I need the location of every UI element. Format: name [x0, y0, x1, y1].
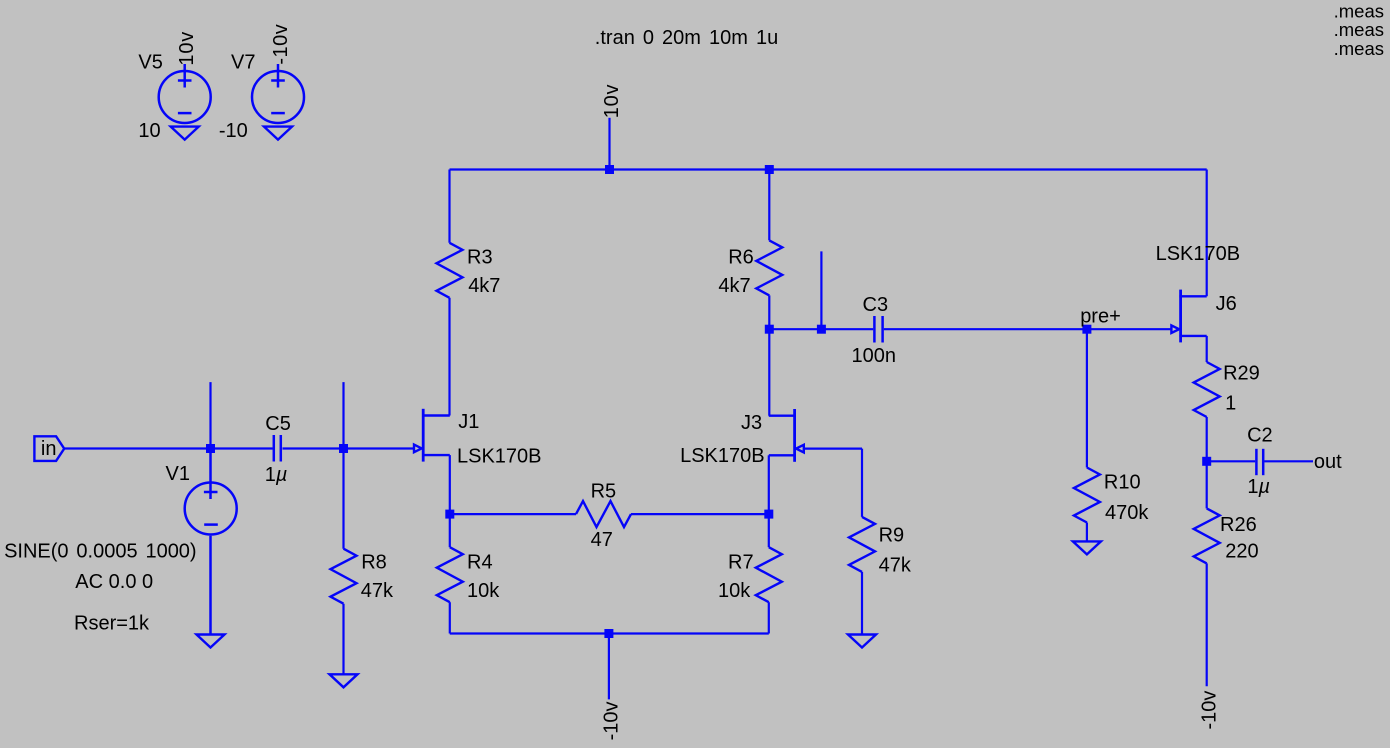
resistor R7 body [756, 547, 782, 602]
svg-text:10k: 10k [718, 580, 751, 602]
node junction stub / C3 wire [817, 325, 826, 334]
wire R7 bottom lead [768, 602, 770, 633]
ground under R8 [330, 674, 358, 687]
svg-text:R9: R9 [879, 524, 905, 546]
svg-text:C3: C3 [863, 294, 889, 316]
capacitor C2 plates [1256, 449, 1263, 475]
svg-text:-10v: -10v [270, 24, 292, 65]
node junction on +10v rail at R6 branch [765, 165, 774, 174]
svg-text:-10: -10 [219, 120, 248, 142]
node junction R8 top [339, 444, 348, 453]
svg-text:.tran 0 20m 10m 1u: .tran 0 20m 10m 1u [595, 27, 778, 49]
svg-text:LSK170B: LSK170B [680, 445, 765, 467]
resistor R3 body [437, 243, 463, 298]
svg-text:R5: R5 [591, 481, 617, 503]
ground under V5 [171, 127, 199, 140]
svg-text:47k: 47k [361, 580, 394, 602]
wire J6 drain to +10v rail [1206, 170, 1208, 297]
ground under V7 [264, 127, 292, 140]
svg-text:V5: V5 [138, 52, 162, 74]
svg-text:pre+: pre+ [1080, 306, 1121, 328]
svg-text:-10v: -10v [601, 701, 623, 740]
svg-text:1µ: 1µ [265, 464, 288, 486]
node junction R6 / C3 / J3 drain [765, 325, 774, 334]
wire R5 right lead [631, 513, 769, 515]
svg-text:R6: R6 [728, 247, 754, 269]
svg-text:R26: R26 [1220, 514, 1257, 536]
svg-text:R10: R10 [1104, 472, 1141, 494]
wire top +10v rail [450, 168, 1207, 170]
wire R9 top lead [861, 449, 863, 517]
svg-text:.meas: .meas [1334, 38, 1384, 59]
wire R4 bottom lead [449, 602, 451, 633]
svg-text:4k7: 4k7 [468, 275, 500, 297]
wire input net from in port to J1 gate [64, 447, 272, 449]
node junction pre+ / R10 [1082, 325, 1091, 334]
svg-text:4k7: 4k7 [718, 275, 750, 297]
capacitor C3 plates [874, 316, 882, 343]
svg-text:R3: R3 [467, 246, 493, 268]
voltage source V5 [159, 64, 211, 123]
wire C2 right to out [1264, 460, 1313, 462]
wire J3 gate to R9 [804, 448, 862, 450]
wire C3 left lead [769, 328, 873, 330]
resistor R4 body [437, 547, 463, 602]
wire bottom -10v rail [450, 632, 769, 634]
svg-text:V7: V7 [231, 52, 255, 74]
wire C5 right to J1 gate arrow [283, 447, 415, 449]
node junction J1 source / R4 / R5 [445, 510, 454, 519]
svg-text:-10v: -10v [1198, 691, 1220, 730]
wire R8 top lead [342, 449, 344, 549]
ground under R9 [848, 635, 876, 648]
wire R10 bottom lead [1086, 523, 1088, 542]
svg-text:in: in [41, 438, 57, 460]
svg-text:C2: C2 [1247, 425, 1273, 447]
wire antenna stub above R8 [342, 382, 344, 448]
node junction V1 top [206, 444, 215, 453]
transistor Q J1 LSK170B symbol [414, 409, 450, 462]
svg-text:R4: R4 [467, 551, 493, 573]
svg-text:10v: 10v [176, 31, 198, 66]
resistor R10 body [1074, 468, 1100, 523]
resistor R9 body [849, 517, 875, 572]
wire R3 top lead [448, 170, 450, 243]
voltage source V1 circle [185, 449, 237, 635]
svg-text:LSK170B: LSK170B [1156, 243, 1241, 265]
wire R6 top lead [768, 170, 770, 241]
ground under V1 [197, 635, 225, 648]
wire R5 left lead [450, 513, 576, 515]
svg-text:10: 10 [138, 120, 160, 142]
svg-text:1: 1 [1225, 393, 1236, 415]
svg-text:470k: 470k [1105, 502, 1149, 524]
svg-text:J1: J1 [458, 411, 479, 433]
wire R7 top lead [768, 514, 770, 547]
wire R26 bottom lead to -10v [1206, 563, 1208, 686]
svg-text:100n: 100n [852, 345, 897, 367]
wire R29 bottom lead [1206, 417, 1208, 461]
svg-text:C5: C5 [265, 413, 291, 435]
transistor Q J6 LSK170B symbol [1171, 290, 1206, 343]
resistor R29 body [1194, 362, 1220, 417]
node junction J3 source / R7 / R5 [764, 510, 773, 519]
svg-text:10v: 10v [601, 84, 623, 119]
port flag in [34, 436, 64, 461]
wire R8 bottom lead [342, 604, 344, 675]
node junction on +10v rail at label stub [605, 165, 614, 174]
svg-text:10k: 10k [467, 580, 500, 602]
node junction R29 / C2 / R26 [1202, 457, 1211, 466]
svg-text:R7: R7 [728, 551, 754, 573]
svg-text:SINE(0 0.0005 1000): SINE(0 0.0005 1000) [4, 540, 197, 562]
svg-text:R29: R29 [1223, 363, 1260, 385]
svg-text:LSK170B: LSK170B [457, 446, 542, 468]
wire C3 right to J6 gate [884, 328, 1171, 330]
voltage source V7 [252, 64, 304, 123]
wire C2 left lead [1207, 460, 1256, 462]
wire antenna stub above V1 [209, 382, 211, 448]
svg-text:47k: 47k [879, 555, 912, 577]
wire R26 top lead [1206, 461, 1208, 508]
node junction -10v stub [604, 629, 613, 638]
wire J1 source to node [449, 455, 451, 514]
wire R6 bottom lead [768, 295, 770, 329]
wire 10v label stub [608, 118, 610, 170]
ground under R10 [1073, 541, 1101, 554]
svg-text:J6: J6 [1216, 293, 1237, 315]
wire J6 source lead [1206, 336, 1208, 362]
wire stub above C3 node [820, 251, 822, 329]
wire -10v label stub [608, 634, 610, 700]
svg-text:R8: R8 [361, 551, 387, 573]
resistor R6 body [756, 240, 782, 295]
wire R9 bottom lead [861, 572, 863, 635]
wire R4 top lead [449, 514, 451, 547]
svg-text:47: 47 [591, 529, 613, 551]
wire R10 top lead [1086, 329, 1088, 467]
svg-text:AC 0.0 0: AC 0.0 0 [75, 571, 153, 593]
svg-text:V1: V1 [166, 463, 190, 485]
resistor R26 body [1194, 508, 1220, 563]
wire J3 drain vertical [768, 329, 770, 416]
svg-text:J3: J3 [741, 412, 762, 434]
wire R3 bottom lead to J1 drain [448, 298, 450, 416]
resistor R8 body [331, 549, 357, 604]
wire J3 source to node [768, 455, 770, 514]
capacitor C5 plates [274, 435, 281, 462]
svg-text:out: out [1314, 451, 1342, 473]
resistor R5 body [576, 501, 631, 527]
svg-text:220: 220 [1225, 541, 1258, 563]
transistor Q J3 LSK170B symbol mirrored [769, 409, 804, 462]
svg-text:Rser=1k: Rser=1k [74, 612, 150, 634]
svg-text:1µ: 1µ [1247, 476, 1270, 498]
